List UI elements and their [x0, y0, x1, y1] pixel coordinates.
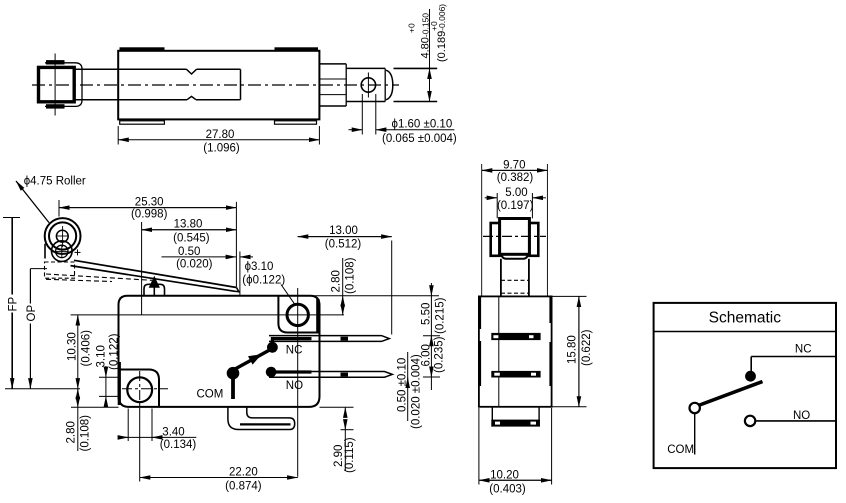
- lever eye: [52, 241, 73, 262]
- svg-text:ϕ1.60 ±0.10: ϕ1.60 ±0.10: [392, 119, 453, 131]
- dimension 25.30: [59, 196, 236, 220]
- svg-text:(0.403): (0.403): [489, 484, 526, 496]
- dimension 2.80 top right: [331, 257, 357, 315]
- svg-text:(0.235): (0.235): [434, 336, 446, 373]
- label NO: [286, 380, 303, 392]
- movable contact arm: [231, 350, 271, 372]
- body tab bottom-left: [120, 121, 165, 124]
- dimension 5.50 and 6.00 chain: [420, 283, 446, 390]
- svg-text:(0.108): (0.108): [345, 257, 357, 294]
- wire centerline side roller: [483, 235, 546, 237]
- svg-text:0.50 ±0.10: 0.50 ±0.10: [397, 358, 409, 412]
- roller (top view): [39, 67, 75, 101]
- switch body (top view): [118, 51, 319, 120]
- dimension 2.90: [320, 407, 357, 473]
- roller bracket cap top: [46, 60, 65, 64]
- svg-text:15.80: 15.80: [567, 335, 579, 364]
- svg-text:(0.134): (0.134): [160, 439, 197, 451]
- svg-text:2.80: 2.80: [331, 270, 343, 292]
- lever bottom edge: [71, 266, 239, 292]
- body edge thick segments: [480, 297, 551, 387]
- dimension FP: [3, 218, 20, 389]
- svg-text:22.20: 22.20: [229, 466, 258, 478]
- body tab top-left: [120, 47, 165, 51]
- hidden lever dashes: [501, 280, 530, 293]
- dimension 10.30: [67, 315, 93, 389]
- wire centerline top view: [32, 84, 399, 86]
- roller flange left: [491, 223, 500, 256]
- svg-text:(0.382): (0.382): [497, 172, 534, 184]
- svg-text:(0.122): (0.122): [109, 333, 121, 370]
- svg-text:9.70: 9.70: [503, 159, 525, 171]
- svg-text:0.50: 0.50: [178, 246, 200, 258]
- svg-text:(1.096): (1.096): [203, 142, 240, 154]
- roller bracket outline (top view): [45, 63, 82, 107]
- svg-text:NO: NO: [793, 410, 810, 422]
- svg-text:5.50: 5.50: [421, 303, 433, 325]
- svg-text:3.40: 3.40: [162, 427, 184, 439]
- roller axis line: [54, 54, 56, 116]
- extension line plunger center: [141, 222, 143, 315]
- terminal NO end-on: [491, 371, 540, 378]
- node hole2 centerline vertical + extension to 22.20: [297, 288, 299, 477]
- terminal NC blade: [269, 336, 389, 342]
- svg-text:(0.020): (0.020): [176, 258, 213, 270]
- plunger narrow section (top view): [346, 68, 385, 101]
- label dia 3.10 hole: [242, 261, 294, 304]
- body seam line: [498, 296, 500, 406]
- svg-text:OP: OP: [26, 305, 38, 322]
- svg-text:FP: FP: [8, 296, 20, 311]
- svg-text:10.20: 10.20: [490, 469, 519, 481]
- svg-text:(0.189-0.006): (0.189-0.006): [436, 4, 448, 62]
- roller outer circle: [45, 218, 81, 254]
- lever shaft bottom edge: [74, 69, 240, 99]
- svg-text:(0.215): (0.215): [435, 297, 447, 334]
- node hole1 centerline: [122, 371, 168, 482]
- svg-text:(0.406): (0.406): [81, 330, 93, 367]
- node hole1 centerline left: [5, 388, 80, 390]
- svg-text:(0.020 ±0.004): (0.020 ±0.004): [411, 354, 423, 429]
- svg-text:25.30: 25.30: [135, 196, 164, 208]
- extension body top right: [313, 295, 439, 297]
- svg-text:COM: COM: [197, 388, 224, 400]
- svg-text:3.10: 3.10: [96, 345, 108, 367]
- svg-text:NC: NC: [286, 344, 303, 356]
- plunger wide section (top view): [319, 64, 346, 106]
- roller (side view): [500, 219, 530, 255]
- svg-text:5.00: 5.00: [505, 187, 527, 199]
- svg-text:COM: COM: [667, 444, 694, 456]
- dimension 3.10: [96, 333, 121, 407]
- dimension dia 1.60: [349, 94, 457, 145]
- hole in plunger: [361, 73, 375, 98]
- dimension 4.80 plunger height: [394, 4, 449, 102]
- dimension 0.50 +-0.10 blade thickness: [397, 352, 423, 429]
- label NC: [286, 344, 303, 356]
- svg-text:+0: +0: [407, 23, 417, 33]
- svg-text:(0.622): (0.622): [581, 329, 593, 366]
- dimension 2.80 left: [65, 389, 118, 452]
- lever shaft top edge: [74, 69, 240, 74]
- roller bracket cap bottom: [46, 104, 65, 108]
- dimension 13.80: [142, 219, 237, 245]
- label NO schematic: [793, 410, 810, 422]
- roller hub: [56, 226, 68, 247]
- lever column: [501, 259, 529, 297]
- roller inner circle: [49, 222, 76, 249]
- mounting hole top-right: [287, 304, 308, 325]
- lever top edge: [74, 260, 237, 287]
- terminal COM hook: [228, 407, 295, 430]
- dimension 3.40: [118, 409, 196, 452]
- dimension 27.80: [118, 126, 319, 154]
- extension line lever tip end: [239, 252, 241, 296]
- svg-text:(0.545): (0.545): [173, 232, 210, 244]
- svg-text:(0.998): (0.998): [131, 208, 168, 220]
- svg-text:13.00: 13.00: [329, 225, 358, 237]
- body edge thick left: [118, 362, 121, 405]
- wire NO: [756, 420, 836, 422]
- phantom lever dashed: [46, 274, 152, 282]
- svg-text:2.80: 2.80: [65, 421, 77, 443]
- plunger motion arrow: [149, 276, 160, 297]
- dimension 10.20: [479, 408, 552, 496]
- contact NO: [266, 367, 312, 378]
- svg-text:(0.874): (0.874): [225, 481, 262, 493]
- terminal COM end-on: [491, 407, 540, 427]
- svg-text:ϕ4.75 Roller: ϕ4.75 Roller: [24, 175, 86, 187]
- label COM schematic: [667, 444, 694, 456]
- dimension 22.20: [140, 466, 298, 492]
- dimension 0.50 lever tip: [162, 246, 254, 270]
- svg-text:ϕ3.10: ϕ3.10: [245, 261, 274, 273]
- svg-text:10.30: 10.30: [67, 332, 79, 361]
- svg-text:27.80: 27.80: [206, 129, 235, 141]
- svg-text:Schematic: Schematic: [709, 310, 782, 327]
- label dia 4.75 roller: [16, 175, 86, 222]
- mounting hole bottom-left: [127, 377, 152, 402]
- svg-text:4.80-0.150: 4.80-0.150: [420, 13, 432, 59]
- svg-text:NC: NC: [795, 344, 812, 356]
- extension line lever tip: [235, 202, 237, 287]
- svg-text:(0.065 ±0.004): (0.065 ±0.004): [382, 133, 457, 145]
- label COM: [197, 388, 224, 400]
- roller flange right: [529, 223, 538, 256]
- plunger tip cap: [386, 70, 393, 100]
- svg-text:(0.115): (0.115): [344, 437, 356, 473]
- mounting boss bottom-left: [120, 370, 160, 407]
- contact NC: [267, 339, 312, 353]
- contact COM pivot: [227, 367, 240, 399]
- movable arm schematic: [698, 382, 762, 406]
- body edge thick ear right: [316, 299, 319, 332]
- bracket bottom: [502, 255, 528, 259]
- terminal NC end-on: [491, 333, 540, 340]
- svg-text:(0.108): (0.108): [80, 415, 92, 452]
- node hole2 centerline horizontal: [71, 314, 344, 316]
- svg-text:(0.197): (0.197): [497, 200, 534, 212]
- switch body (side view): [479, 296, 552, 406]
- contact NO schematic: [745, 416, 755, 426]
- schematic box: [654, 303, 836, 468]
- body tab bottom-right: [275, 121, 317, 124]
- switch body (front view): [119, 296, 320, 407]
- svg-text:(0.512): (0.512): [325, 238, 362, 250]
- common terminal COM schematic: [690, 403, 700, 455]
- schematic title divider: [654, 331, 836, 333]
- contact NC schematic: [745, 371, 756, 382]
- label Schematic: [709, 310, 782, 327]
- plunger dome: [144, 284, 165, 296]
- mounting boss top-right: [278, 297, 318, 333]
- svg-text:(ϕ0.122): (ϕ0.122): [242, 274, 285, 286]
- dimension 13.00: [298, 225, 392, 335]
- wire NC: [751, 357, 836, 372]
- svg-text:13.80: 13.80: [174, 219, 203, 231]
- body tab top-right: [275, 47, 319, 51]
- dimension 5.00: [485, 187, 546, 218]
- lever fork edge: [44, 244, 46, 259]
- pivot cross mark: [75, 249, 81, 255]
- phantom roller (pressed): [45, 262, 75, 278]
- label NC schematic: [795, 344, 812, 356]
- dimension 15.80: [552, 296, 593, 406]
- terminal NO blade: [269, 372, 392, 378]
- svg-text:NO: NO: [286, 380, 303, 392]
- svg-text:+0: +0: [429, 21, 439, 31]
- dimension 9.70: [482, 159, 548, 296]
- dimension OP: [26, 269, 47, 389]
